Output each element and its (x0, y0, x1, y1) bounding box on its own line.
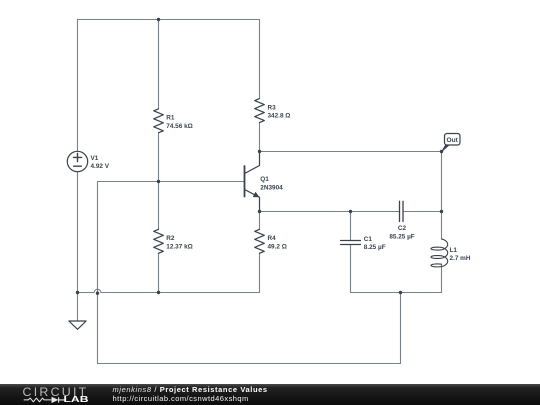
CircuitLab logo (0, 384, 110, 405)
svg-text:8.25 µF: 8.25 µF (364, 244, 386, 251)
wire emitter node to R4 top (259, 212, 261, 230)
wire C1 branch (350, 212, 352, 293)
node feedback crossing dot (96, 292, 99, 295)
transistor Q1 2N3904 (245, 152, 260, 212)
wire ground stem (77, 293, 79, 322)
resistor R4 (255, 229, 265, 253)
svg-text:2N3904: 2N3904 (260, 184, 283, 191)
wire R3 to collector node (259, 123, 261, 152)
svg-text:C2: C2 (398, 225, 407, 232)
svg-text:74.56 kΩ: 74.56 kΩ (166, 123, 192, 130)
svg-text:R4: R4 (268, 235, 277, 242)
wire collector node to Out corner (260, 151, 442, 153)
svg-text:2.7 mH: 2.7 mH (450, 255, 471, 262)
node tank right junction (440, 210, 443, 213)
node Out flag (442, 134, 460, 152)
svg-text:R2: R2 (166, 235, 175, 242)
logo diode (52, 397, 59, 403)
ground symbol (69, 321, 86, 329)
wire emitter row (emitter to C2 left) (260, 211, 400, 213)
resistor R1 (154, 109, 164, 133)
wire left rail top (V1 to top rail) (77, 20, 79, 152)
svg-text:LAB: LAB (64, 395, 90, 404)
wire base (R1/R2 divider to Q1 base) (98, 181, 245, 183)
svg-text:R3: R3 (268, 104, 277, 111)
inductor L1 (431, 239, 448, 267)
capacitor C1 (341, 241, 361, 245)
wire feedback bottom run (98, 293, 401, 364)
svg-text:49.2 Ω: 49.2 Ω (268, 243, 287, 250)
svg-text:R1: R1 (166, 115, 175, 122)
wire top rail V+ (78, 19, 260, 21)
resistor R2 (154, 229, 164, 253)
node base divider junction (157, 180, 160, 183)
wire C2 right to right rail (403, 211, 442, 213)
logo resistor zigzag (24, 398, 52, 402)
svg-text:12.37 kΩ: 12.37 kΩ (166, 243, 192, 250)
svg-text:4.92 V: 4.92 V (91, 163, 110, 170)
svg-text:L1: L1 (450, 247, 458, 254)
svg-text:Out: Out (447, 137, 459, 144)
node R2 ground junction (157, 291, 160, 294)
wire R1/R2 column (158, 20, 160, 293)
node V1 ground junction (76, 291, 79, 294)
wire L1 column (441, 212, 443, 293)
node collector junction (258, 150, 261, 153)
footer title line (113, 385, 268, 394)
svg-text:C1: C1 (364, 236, 373, 243)
voltage source V1 (67, 151, 87, 171)
svg-text:Q1: Q1 (260, 176, 269, 183)
node C1 junction (349, 210, 352, 213)
wire R3 column top (259, 20, 261, 99)
capacitor C2 (400, 201, 404, 221)
node feedback junction (399, 291, 402, 294)
resistor R3 (255, 99, 265, 123)
wire ground rail with hop over feedback wire (78, 253, 260, 292)
wire left rail bottom (V1 to ground wire) (77, 172, 79, 293)
node emitter junction (258, 210, 261, 213)
node R1 top junction (157, 18, 160, 21)
svg-text:342.8 Ω: 342.8 Ω (268, 113, 291, 120)
footer bar (0, 384, 540, 405)
wire Out corner down to tank top (441, 152, 443, 212)
wire tank bottom row (351, 292, 442, 294)
footer url line (113, 394, 249, 403)
node Out corner junction (440, 150, 443, 153)
svg-text:85.25 µF: 85.25 µF (389, 233, 414, 240)
svg-text:V1: V1 (91, 155, 99, 162)
wire feedback left vertical (97, 182, 99, 364)
